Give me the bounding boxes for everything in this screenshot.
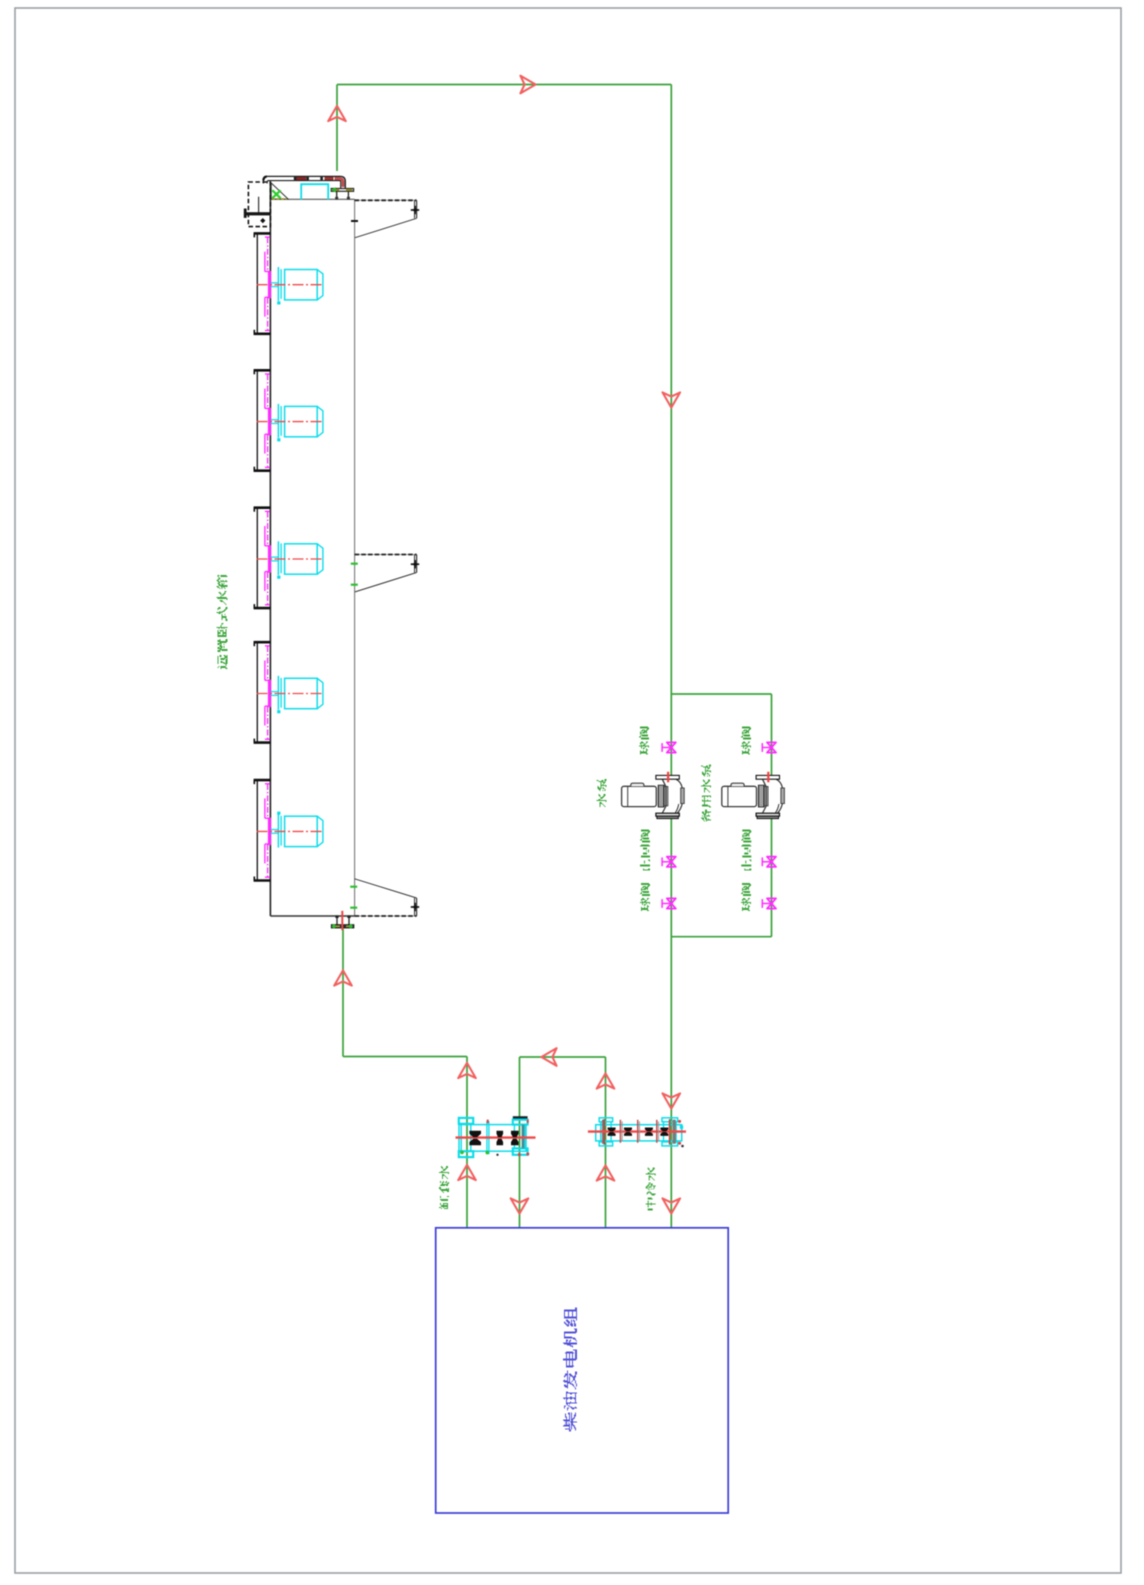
ball valve (standby suction) 球阀 [762, 742, 776, 752]
gusset plate with green cross [271, 183, 288, 199]
flow arrow up on tank-top riser [328, 106, 346, 121]
flow arrow down on suction downcomer [663, 392, 681, 407]
fan unit F5 (blade + cyan motor) [254, 780, 324, 880]
fan unit F2 (blade + cyan motor) [254, 370, 324, 470]
flow arrow up on intercooler riser (upper) [597, 1073, 615, 1088]
flow arrow down on main discharge (upper) [663, 1093, 681, 1108]
ball valve (main discharge) 球阀 [662, 898, 676, 908]
flow arrow up on jacket riser (upper) [458, 1063, 476, 1078]
wire: intercooler header [520, 1056, 606, 1058]
label 球阀 (main suction) [639, 727, 649, 755]
label 球阀 (main discharge) [640, 883, 650, 911]
check valve (standby) 止回阀 [762, 857, 776, 867]
label 水泵 [597, 779, 607, 807]
heat exchanger E1 (jacket water) [456, 1116, 536, 1157]
tank support bracket (bottom) [350, 879, 419, 916]
label 柴油发电机组 [563, 1308, 577, 1432]
flow arrow down on intercooler return [511, 1198, 529, 1213]
wire: standby branch header [671, 693, 771, 695]
wire: discharge merge header [671, 936, 771, 938]
flow arrow left on intercooler header [541, 1048, 556, 1066]
ball valve (main suction) 球阀 [662, 742, 676, 752]
fan unit F4 (blade + cyan motor) [254, 642, 324, 742]
label 止回阀 (standby) [741, 830, 751, 871]
filler flange fitting [331, 187, 354, 199]
filler pipe on tank top [263, 176, 345, 188]
diesel generator set box [436, 1228, 729, 1513]
wire: main pump discharge [670, 816, 672, 1227]
flow arrow right on top header [520, 76, 535, 94]
wire: standby branch drop [771, 694, 773, 776]
water pump P1 水泵 [622, 772, 685, 819]
tank drain flange [331, 911, 354, 930]
label 备用水泵 [701, 765, 711, 822]
standby water pump P2 备用水泵 [722, 772, 785, 819]
wire: pump suction downcomer [670, 85, 672, 776]
flow arrow up on jacket riser (lower) [458, 1165, 476, 1180]
check valve (main) 止回阀 [662, 857, 676, 867]
wire: intercooler riser [605, 1057, 607, 1228]
ball valve (standby discharge) 球阀 [762, 898, 776, 908]
label 中冷水 [646, 1168, 656, 1211]
wire: top header pipe [337, 84, 671, 86]
expansion tank (cyan box) [301, 184, 328, 199]
tank support bracket (middle) [351, 555, 419, 592]
wire: jacket-water header [343, 1056, 467, 1058]
label 缸套水 [439, 1166, 449, 1209]
wire: standby pump discharge [771, 816, 773, 936]
tank support bracket (top) [355, 200, 420, 237]
tank: remote horizontal water tank body [217, 176, 785, 1513]
heat exchanger E2 (intercooler water) [588, 1118, 686, 1147]
wire: intercooler return drop [519, 1057, 521, 1228]
label 球阀 (standby suction) [741, 727, 751, 755]
label 球阀 (standby discharge) [741, 883, 751, 911]
tick on tank edge near top bracket [351, 220, 358, 222]
label 远置卧式水箱 [217, 575, 228, 669]
flow arrow up on intercooler riser (lower) [597, 1165, 615, 1180]
label 止回阀 (main) [640, 830, 650, 871]
wire: tank-top outlet riser [336, 85, 338, 172]
fan unit F3 (blade + cyan motor) [254, 508, 324, 608]
wire: tank drain riser [342, 929, 344, 1057]
flow arrow down on main discharge (lower) [663, 1198, 681, 1213]
flow arrow up on tank drain riser [334, 970, 352, 985]
wire: jacket-water riser [466, 1057, 468, 1228]
tank end frame (ladder box) [244, 182, 271, 227]
fan unit F1 (blade + cyan motor) [254, 233, 324, 333]
